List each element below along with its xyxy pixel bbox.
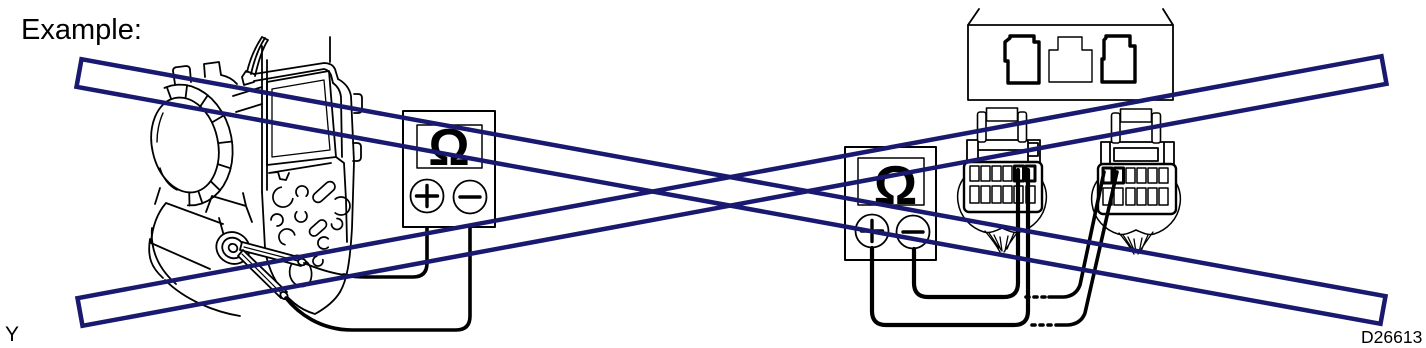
C2 pin block <box>1098 164 1176 214</box>
harness wire C1-C2 (lower, dashed break) <box>1032 323 1051 327</box>
ECU box perspective ticks <box>968 9 1173 25</box>
ECU socket B (thin) <box>1049 37 1092 82</box>
cylinder end cap rings <box>210 226 255 270</box>
wire from probe B to ohmmeter V1 minus terminal <box>286 214 470 330</box>
cross-out band (ascending) <box>78 56 1387 326</box>
svg-text:D26613: D26613 <box>1361 327 1422 347</box>
ohmmeter V2 <box>845 147 936 260</box>
C1 pins row 1 <box>970 166 1012 181</box>
C2 terminal 1 (probed) <box>1103 168 1112 183</box>
wire from V2 plus to connector C1 terminal 6 <box>872 170 1028 325</box>
C1 wire boot balloon <box>958 169 1047 233</box>
motor lower bracket elbow <box>155 188 252 222</box>
frame left edge <box>262 46 267 192</box>
test probe B (to ohmmeter V1 minus) <box>238 250 289 301</box>
C1 terminal 6 (probed) <box>1026 166 1035 181</box>
C1 terminal 5 (probed) <box>1015 166 1024 181</box>
V2 case <box>845 147 936 260</box>
V2 minus terminal <box>897 216 930 249</box>
ring top clamp tabs <box>173 62 237 84</box>
V1 plus terminal <box>411 180 444 213</box>
V1 display window <box>417 125 482 168</box>
harness wire C1-C2 (upper, dashed break) <box>1026 295 1045 299</box>
C2 lock tab <box>1121 109 1152 122</box>
ohmmeter V1 <box>403 111 495 227</box>
wire from V2 minus to connector C1 terminal 5 <box>914 170 1018 297</box>
ECU box <box>968 9 1173 100</box>
motor end cap scalloped ring <box>165 85 233 206</box>
svg-text:Y: Y <box>5 323 19 346</box>
ring segment ticks <box>167 85 232 205</box>
C2 pins row 1 <box>1126 168 1168 183</box>
V2 plus terminal <box>856 215 889 248</box>
C2 wire boot balloon <box>1092 171 1181 235</box>
C1 lock tab <box>987 108 1018 121</box>
C2 pins row 2 <box>1103 188 1168 205</box>
connector C1 <box>958 108 1047 252</box>
frame window <box>267 71 336 165</box>
motor face inner arc <box>157 113 177 190</box>
V1 minus terminal <box>454 181 487 214</box>
ECU socket C (thick) <box>1102 36 1135 82</box>
pump body lower-left blob <box>149 228 176 284</box>
right side tab 2 <box>353 143 361 161</box>
handle bar tube <box>254 63 338 83</box>
C1 boot crimp hatching <box>985 230 1019 252</box>
test probe A (to ohmmeter V1 plus) <box>240 242 307 266</box>
lightening holes in plate <box>271 182 350 266</box>
body bottom-left hose outline <box>165 280 240 316</box>
V2 display window <box>858 158 924 205</box>
V1 case <box>403 111 495 227</box>
C2 boot crimp hatching <box>1119 232 1153 254</box>
svg-text:Example:: Example: <box>21 14 142 46</box>
motor face ellipse <box>143 91 228 199</box>
pump cylinder body <box>151 203 224 269</box>
C1 pin block <box>964 162 1042 212</box>
body right edge <box>333 79 354 292</box>
right side tab 1 <box>354 94 362 113</box>
wire pair going up from actuator top <box>247 37 268 76</box>
cross-out band (descending) <box>77 59 1386 324</box>
window bottom shelf lines <box>269 163 331 180</box>
C2 terminal 2 (probed) <box>1115 168 1124 183</box>
C2 housing upper <box>1101 142 1174 166</box>
C1 pins row 2 <box>970 186 1035 203</box>
ring to frame connecting lines <box>233 87 262 112</box>
ECU socket A (thick) <box>1005 36 1039 83</box>
potato hole near plate bottom <box>290 259 312 286</box>
small oval on potato <box>290 254 301 265</box>
lower plate outline <box>262 157 347 314</box>
antenna wire on actuator right <box>329 37 331 62</box>
wire from probe A to ohmmeter V1 plus terminal <box>304 263 345 275</box>
bar left clamp <box>242 71 254 85</box>
clutch actuator assembly (left component) <box>143 37 362 316</box>
C1 housing upper <box>967 140 1040 164</box>
connector C2 <box>1092 109 1181 254</box>
